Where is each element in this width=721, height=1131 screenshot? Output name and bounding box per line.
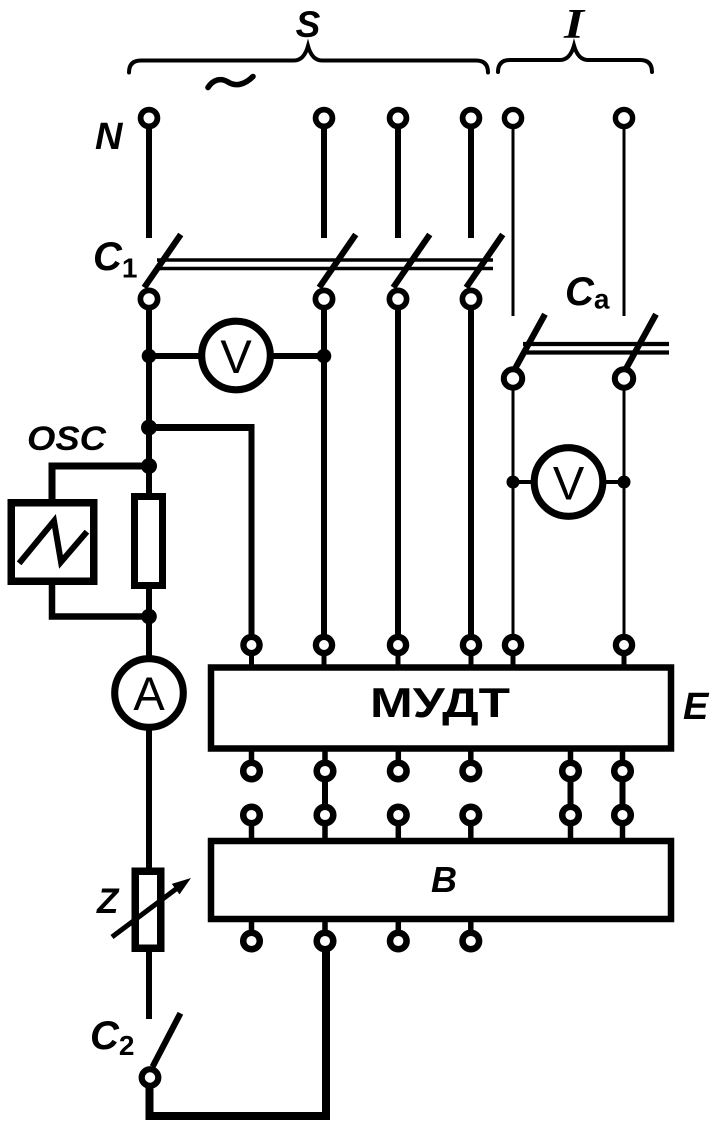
svg-text:I: I — [563, 2, 586, 48]
svg-text:Z: Z — [96, 882, 120, 921]
svg-text:A: A — [133, 667, 165, 720]
svg-text:S: S — [296, 4, 321, 45]
svg-text:B: B — [431, 859, 457, 900]
svg-text:N: N — [95, 116, 124, 158]
svg-text:E: E — [683, 686, 710, 728]
svg-text:V: V — [553, 457, 585, 510]
svg-text:OSC: OSC — [27, 420, 106, 458]
svg-text:V: V — [220, 330, 252, 383]
svg-text:МУДТ: МУДТ — [370, 679, 510, 726]
